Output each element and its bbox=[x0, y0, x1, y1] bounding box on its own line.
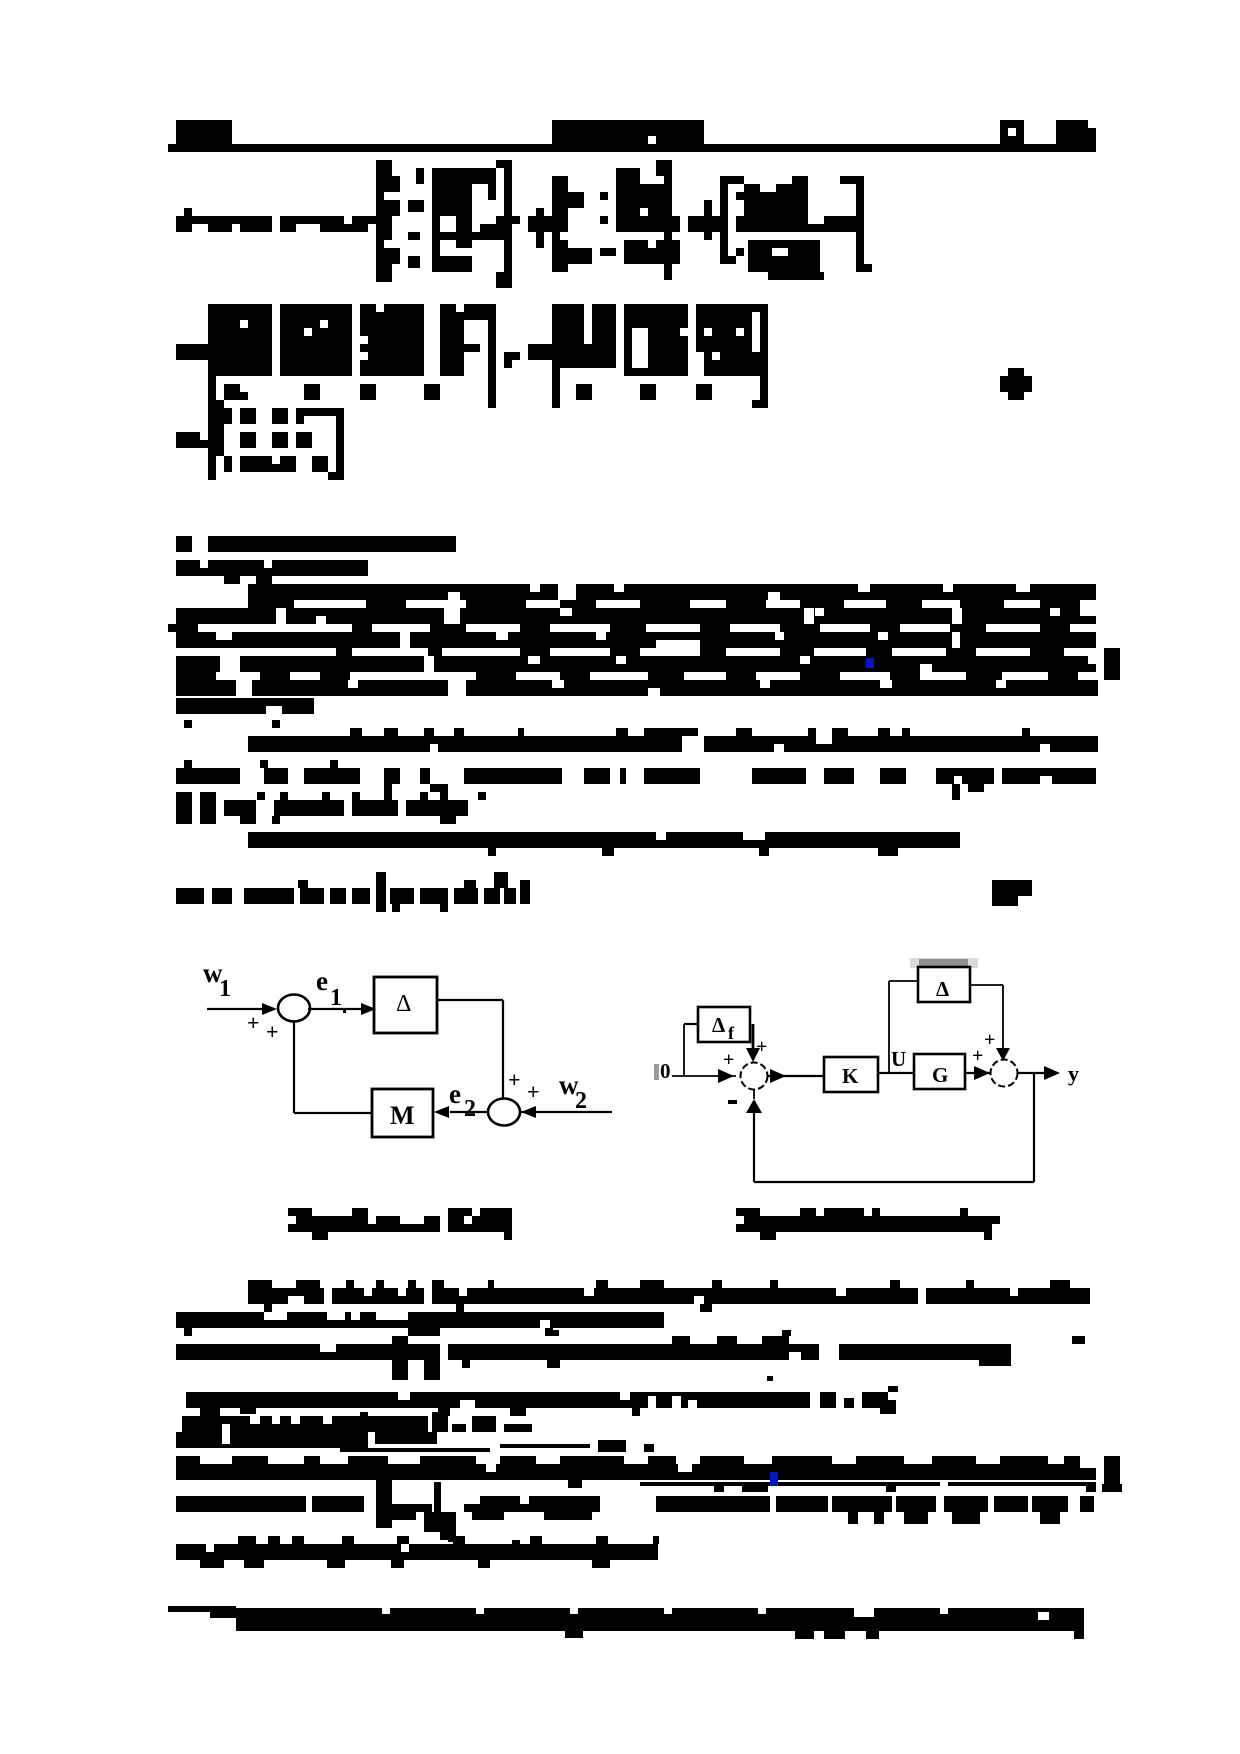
wire K to G bbox=[878, 1072, 914, 1074]
wire G to sum2 bbox=[965, 1072, 990, 1074]
wire Delta to sum2 bbox=[970, 984, 1003, 986]
svg-text:G: G bbox=[932, 1063, 948, 1087]
wire Delta_f to sum1 bbox=[752, 1024, 755, 1050]
svg-text:+: + bbox=[247, 1010, 260, 1035]
wire sum1 to K bbox=[768, 1075, 824, 1077]
node 0 (input) bbox=[654, 1064, 659, 1080]
summing junction S1 bbox=[278, 995, 310, 1022]
feedback wire M to sum1 bbox=[294, 1112, 372, 1114]
svg-text:f: f bbox=[728, 1023, 735, 1043]
svg-text:2: 2 bbox=[464, 1096, 476, 1122]
wire sum2 to M bbox=[450, 1111, 488, 1113]
svg-text:+: + bbox=[984, 1029, 995, 1051]
svg-text:+: + bbox=[723, 1049, 734, 1071]
svg-text:Δ: Δ bbox=[712, 1013, 725, 1037]
wire e1 to Delta box bbox=[308, 1008, 362, 1010]
summing junction F2 bbox=[991, 1060, 1018, 1087]
svg-text:e: e bbox=[449, 1079, 461, 1109]
output wire y bbox=[1018, 1072, 1056, 1074]
svg-text:1: 1 bbox=[330, 985, 342, 1011]
wire input to Delta_f bbox=[683, 1024, 685, 1076]
svg-text:M: M bbox=[390, 1101, 415, 1130]
block Delta (top) bbox=[918, 967, 970, 1002]
svg-text:y: y bbox=[1068, 1061, 1079, 1086]
svg-text:+: + bbox=[508, 1067, 521, 1092]
block M bbox=[372, 1089, 433, 1137]
wire U up to Delta bbox=[888, 981, 890, 1073]
input wire to sum1 bbox=[672, 1075, 736, 1077]
block Delta_f bbox=[698, 1007, 750, 1042]
svg-text:+: + bbox=[756, 1036, 767, 1058]
wire Delta to sum2 bbox=[437, 999, 503, 1001]
svg-text:+: + bbox=[527, 1079, 540, 1104]
feedback wire bottom bbox=[1033, 1073, 1035, 1182]
svg-text:Δ: Δ bbox=[936, 977, 949, 1001]
block K bbox=[824, 1057, 878, 1092]
gray mark above Delta bbox=[910, 958, 978, 968]
svg-text:+: + bbox=[972, 1045, 983, 1067]
summing junction S2 bbox=[488, 1099, 520, 1126]
block G bbox=[914, 1054, 965, 1089]
wire w1 to sum1 bbox=[207, 1008, 272, 1010]
svg-text:2: 2 bbox=[575, 1088, 587, 1114]
svg-text:e: e bbox=[316, 966, 328, 996]
svg-text:Δ: Δ bbox=[396, 991, 411, 1017]
binarized text blobs bbox=[168, 120, 1122, 1639]
wire w2 to sum2 bbox=[521, 1111, 612, 1113]
summing junction F1 bbox=[741, 1063, 768, 1090]
svg-text:0: 0 bbox=[660, 1059, 671, 1083]
svg-text:+: + bbox=[266, 1019, 279, 1044]
svg-text:U: U bbox=[891, 1047, 906, 1071]
svg-text:K: K bbox=[842, 1064, 859, 1088]
svg-text:1: 1 bbox=[219, 976, 231, 1002]
block Delta bbox=[374, 977, 437, 1033]
